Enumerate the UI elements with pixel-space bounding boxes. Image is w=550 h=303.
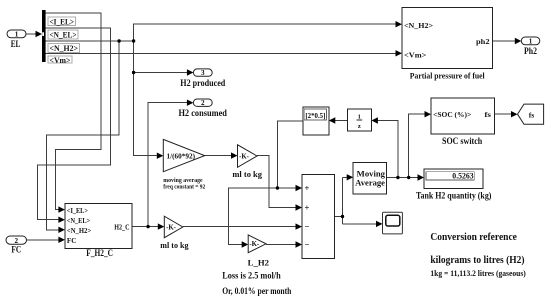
svg-text:<I_EL>: <I_EL>	[50, 17, 75, 26]
svg-text:<N_H2>: <N_H2>	[404, 21, 433, 30]
svg-text:<N_H2>: <N_H2>	[67, 226, 91, 235]
svg-text:-K-: -K-	[166, 224, 177, 231]
svg-text:[2*0.5]: [2*0.5]	[305, 112, 325, 120]
svg-text:fs: fs	[529, 110, 534, 119]
svg-text:Partial pressure of fuel: Partial pressure of fuel	[410, 70, 485, 80]
svg-text:H2_C: H2_C	[114, 222, 129, 231]
svg-text:+: +	[305, 183, 310, 193]
svg-text:ml to kg: ml to kg	[232, 169, 262, 179]
svg-text:EL: EL	[11, 39, 21, 49]
svg-text:ml to kg: ml to kg	[160, 240, 189, 250]
svg-text:Or, 0.01% per month: Or, 0.01% per month	[222, 286, 291, 296]
svg-text:1kg = 11,113.2 litres (gaseous: 1kg = 11,113.2 litres (gaseous)	[430, 269, 526, 278]
svg-text:Ph2: Ph2	[524, 46, 537, 56]
svg-text:1: 1	[358, 114, 361, 121]
svg-text:<Vm>: <Vm>	[50, 56, 71, 65]
svg-text:H2 produced: H2 produced	[180, 78, 225, 88]
svg-text:fs: fs	[484, 110, 491, 119]
svg-text:-K-: -K-	[249, 241, 260, 248]
svg-text:<N_EL>: <N_EL>	[67, 216, 90, 225]
svg-text:<I_EL>: <I_EL>	[67, 206, 88, 215]
svg-text:-K-: -K-	[239, 153, 250, 160]
svg-text:Loss is 2.5 mol/h: Loss is 2.5 mol/h	[222, 271, 281, 281]
svg-text:−: −	[305, 222, 310, 232]
svg-text:kilograms to litres (H2): kilograms to litres (H2)	[430, 255, 524, 266]
svg-text:Tank H2 quantity (kg): Tank H2 quantity (kg)	[416, 190, 491, 200]
svg-text:FC: FC	[67, 236, 76, 245]
svg-text:F_H2_C: F_H2_C	[86, 248, 113, 258]
svg-text:ph2: ph2	[476, 37, 490, 46]
svg-text:<N_H2>: <N_H2>	[50, 44, 79, 53]
svg-text:SOC switch: SOC switch	[442, 136, 482, 146]
svg-text:Moving: Moving	[357, 170, 385, 179]
svg-text:Conversion reference: Conversion reference	[430, 232, 517, 243]
svg-text:freq constant = 92: freq constant = 92	[163, 184, 205, 191]
svg-text:−: −	[305, 240, 310, 250]
svg-text:<N_EL>: <N_EL>	[50, 31, 77, 40]
svg-text:3: 3	[201, 69, 205, 77]
svg-text:2: 2	[201, 99, 205, 107]
svg-text:1: 1	[15, 31, 19, 39]
svg-text:Average: Average	[355, 179, 385, 188]
svg-text:+: +	[305, 203, 310, 213]
svg-text:H2 consumed: H2 consumed	[178, 108, 227, 118]
svg-text:FC: FC	[11, 245, 21, 255]
svg-text:1: 1	[529, 38, 533, 46]
svg-text:1/(60*92): 1/(60*92)	[167, 153, 196, 160]
svg-text:<Vm>: <Vm>	[404, 50, 426, 59]
svg-text:0.5263: 0.5263	[452, 171, 473, 180]
svg-text:L_H2: L_H2	[248, 258, 269, 268]
svg-text:2: 2	[15, 237, 19, 245]
svg-text:z: z	[358, 123, 361, 130]
svg-text:<SOC (%)>: <SOC (%)>	[433, 110, 471, 119]
